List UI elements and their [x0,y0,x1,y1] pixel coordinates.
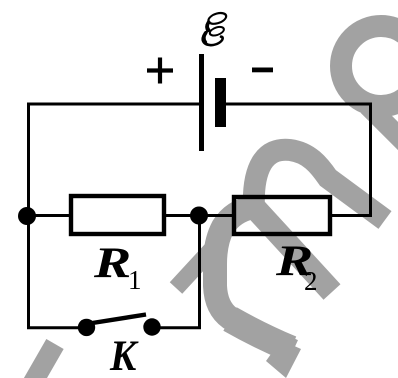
switch K blade [86,315,146,325]
watermark arm thick overlay [230,319,291,349]
switch K contact dot left [78,319,95,336]
wire top-right horizontal (battery - side) [221,103,372,106]
wire bottom left (node A down leg to switch) [27,326,87,329]
label EMF script E [202,11,229,45]
wire left vertical [27,103,30,329]
node A junction dot (left) [18,207,36,225]
wire between R1 and R2 [165,214,233,217]
minus sign [252,68,273,73]
resistor R2 box [234,197,330,234]
plus sign [147,58,173,84]
battery right plate (short thick, -) [215,78,226,127]
svg-text:K: K [109,331,139,378]
battery left plate (long, +) [199,54,204,151]
svg-text:1: 1 [128,265,142,295]
wire right vertical [369,103,372,217]
watermark diagonal band 1 through R2 label [254,207,332,292]
watermark short stub B [176,249,212,288]
resistor R1 box [71,196,164,234]
node B junction dot (between R1 and R2) [190,207,208,225]
wire bottom right (switch to middle vertical) [152,326,201,329]
wire R2 right to right vertical [331,214,372,217]
watermark hook with hole (letter part, center) [254,150,385,220]
watermark e-bar tail [368,106,398,150]
svg-text:2: 2 [304,266,318,296]
watermark bottom-left stub A [32,344,55,378]
wire top-left horizontal (battery + side) [27,103,201,106]
watermark U-bowl left limb [215,207,293,351]
watermark arm flare at end [266,340,301,378]
wire middle vertical (node B down to switch) [198,216,201,330]
watermark ring (letter e, top right) [341,26,398,106]
svg-text:R: R [93,239,131,286]
switch K contact dot right [143,318,160,335]
wire middle horizontal left (node A to R1) [28,214,70,217]
